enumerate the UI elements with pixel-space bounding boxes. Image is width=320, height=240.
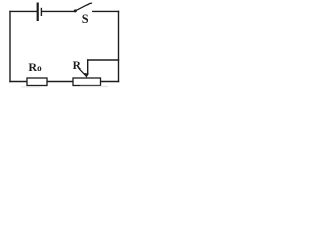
rheostat wiper diagonal stroke bbox=[79, 69, 85, 75]
wire top-left segment bbox=[10, 10, 37, 12]
wire bottom-right segment bbox=[101, 81, 119, 83]
wire rheostat wiper tap horizontal bbox=[88, 59, 119, 61]
battery cell short plate bbox=[41, 8, 42, 16]
wire right side vertical bbox=[118, 11, 120, 81]
smudge under Ro box bbox=[21, 86, 40, 87]
svg-text:Ro: Ro bbox=[28, 60, 42, 74]
wire between rheostat and Ro bbox=[47, 81, 73, 83]
rheostat R box bbox=[73, 78, 101, 86]
wire switch right terminal to top-right corner bbox=[93, 10, 119, 12]
resistor Ro box bbox=[27, 78, 47, 86]
wire left side vertical bbox=[9, 12, 11, 82]
wire battery to switch bbox=[42, 10, 74, 12]
switch S blade bbox=[76, 3, 91, 10]
svg-text:R: R bbox=[73, 60, 82, 72]
smudge under R box bbox=[80, 86, 108, 87]
wire rheostat wiper vertical bbox=[87, 60, 89, 74]
switch S pivot dot bbox=[74, 9, 77, 12]
battery cell long plate bbox=[37, 3, 39, 22]
rheostat wiper arrowhead bbox=[84, 73, 89, 78]
svg-text:S: S bbox=[82, 12, 89, 26]
wire bottom-left segment bbox=[10, 81, 27, 83]
